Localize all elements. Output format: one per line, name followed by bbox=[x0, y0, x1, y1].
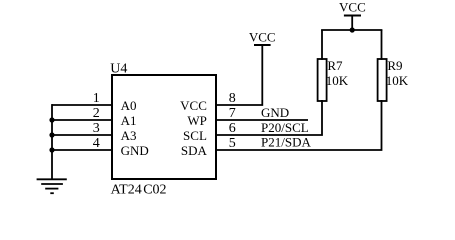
wire pin 1 to ground bus bbox=[52, 104, 112, 106]
junction dot at pin 4 wire bbox=[49, 147, 54, 152]
wire pin 8 to VCC bbox=[216, 45, 262, 105]
svg-text:R7: R7 bbox=[327, 58, 343, 73]
svg-text:VCC: VCC bbox=[180, 98, 207, 113]
svg-text:VCC: VCC bbox=[249, 29, 276, 44]
svg-text:U4: U4 bbox=[110, 61, 127, 76]
junction dot at pin 2 wire bbox=[49, 117, 54, 122]
wire pin 6 to resistor R7 (net P20/SCL) bbox=[216, 100, 322, 135]
junction dot on VCC rail bbox=[350, 27, 355, 32]
svg-text:P20/SCL: P20/SCL bbox=[261, 120, 309, 135]
resistor R9 body bbox=[378, 59, 387, 101]
svg-text:SDA: SDA bbox=[181, 143, 208, 158]
svg-text:WP: WP bbox=[187, 113, 207, 128]
svg-text:AT24C02: AT24C02 bbox=[111, 182, 167, 197]
svg-text:5: 5 bbox=[229, 136, 236, 151]
junction dot at pin 3 wire bbox=[49, 132, 54, 137]
wire resistor R7 top to VCC rail bbox=[321, 30, 323, 60]
svg-text:8: 8 bbox=[229, 91, 236, 106]
svg-text:3: 3 bbox=[93, 121, 100, 136]
wire VCC rail across resistor tops bbox=[321, 29, 382, 31]
wire pin 4 to ground bus bbox=[52, 149, 112, 151]
svg-text:P21/SDA: P21/SDA bbox=[261, 134, 311, 149]
wire pin 7 (net GND) bbox=[216, 119, 308, 121]
svg-text:R9: R9 bbox=[387, 58, 402, 73]
wire pin 5 to resistor R9 (net P21/SDA) bbox=[216, 100, 382, 150]
svg-text:10K: 10K bbox=[386, 73, 409, 88]
svg-text:A0: A0 bbox=[121, 98, 137, 113]
svg-text:1: 1 bbox=[93, 91, 100, 106]
ground symbol bbox=[37, 179, 67, 193]
IC U4 body (AT24C02) bbox=[112, 75, 216, 179]
resistor R7 body bbox=[318, 59, 327, 101]
svg-text:7: 7 bbox=[229, 106, 236, 121]
power symbol VCC (above pull-up resistors) bbox=[339, 0, 366, 16]
svg-text:A1: A1 bbox=[121, 113, 137, 128]
wire resistor R9 top to VCC rail bbox=[381, 30, 383, 60]
svg-text:A3: A3 bbox=[121, 128, 137, 143]
power symbol VCC (above pin 8) bbox=[249, 29, 276, 45]
wire vertical ground bus bbox=[51, 104, 53, 179]
svg-text:GND: GND bbox=[261, 105, 289, 120]
svg-text:2: 2 bbox=[93, 106, 100, 121]
svg-text:VCC: VCC bbox=[339, 0, 366, 14]
wire VCC stem (pull-up rail) bbox=[351, 16, 353, 30]
wire pin 3 to ground bus bbox=[52, 134, 112, 136]
wire pin 2 to ground bus bbox=[52, 119, 112, 121]
svg-text:GND: GND bbox=[121, 143, 149, 158]
svg-text:SCL: SCL bbox=[183, 128, 207, 143]
svg-text:6: 6 bbox=[229, 121, 236, 136]
svg-text:10K: 10K bbox=[326, 73, 349, 88]
svg-text:4: 4 bbox=[93, 136, 100, 151]
